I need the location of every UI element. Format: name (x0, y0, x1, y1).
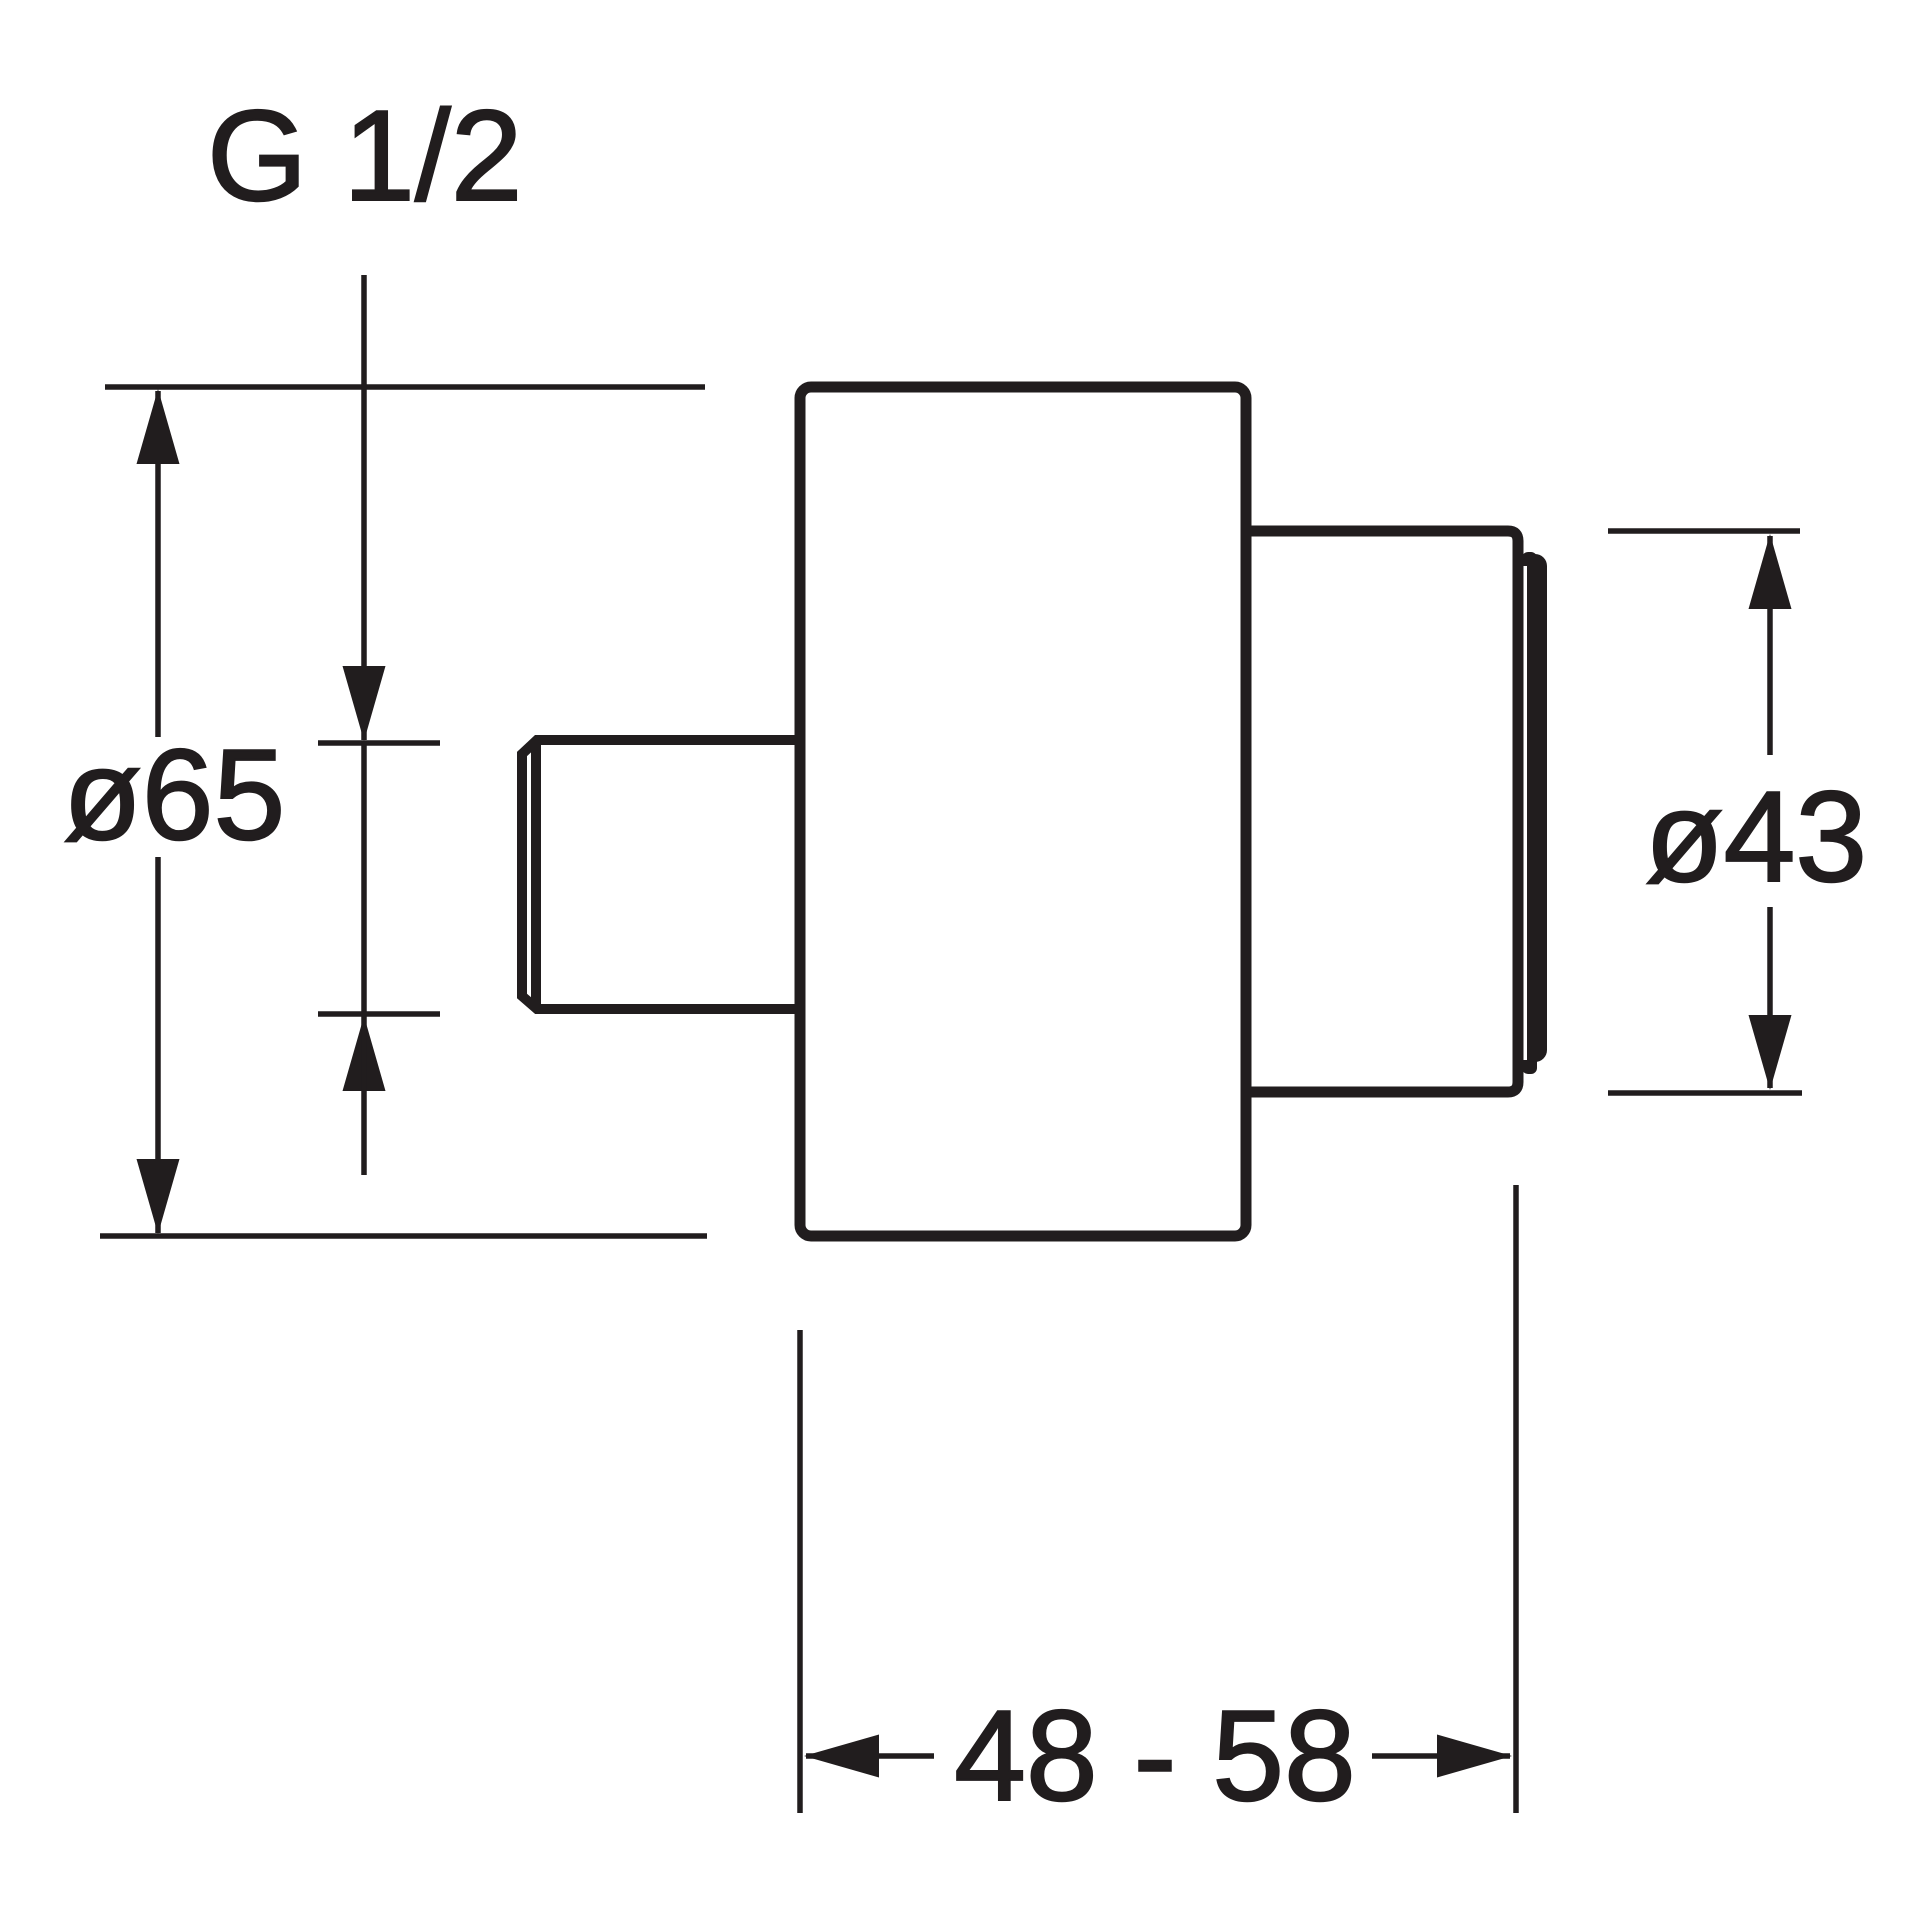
dim ø43 bottom extension line (1608, 1090, 1802, 1096)
right cylinder (escutcheon sleeve) (1246, 531, 1518, 1092)
G 1/2 leader / stub dimension line upper part with down arrow (361, 275, 367, 740)
main body (rounded rectangle) (800, 387, 1246, 1236)
dim 48-58 dimension line left segment with left arrow (806, 1753, 934, 1759)
dim ø65 dimension line upper segment with up arrow (155, 391, 161, 737)
svg-text:ø65: ø65 (63, 723, 285, 867)
svg-text:ø43: ø43 (1645, 765, 1867, 909)
end cap flange (filled) (1522, 552, 1537, 1074)
dim 48-58 right extension line (1513, 1185, 1519, 1813)
dim ø43 dimension line upper segment with up arrow (1767, 536, 1773, 755)
end cap body (filled) (1522, 554, 1547, 1062)
white slit between sleeve and cap (1524, 566, 1528, 1060)
dim ø43 dimension line lower segment with down arrow (1767, 907, 1773, 1088)
dim ø65 dimension line lower segment with down arrow (155, 857, 161, 1233)
tick at stub bottom edge (318, 1011, 440, 1017)
connecting line between ticks (361, 743, 367, 1014)
thread relief line on stub (531, 740, 541, 1009)
up arrow below stub with tail (343, 1016, 386, 1091)
redraw sleeve right edge over slit (1513, 541, 1524, 1082)
tick at stub top edge (318, 740, 440, 746)
svg-text:48 - 58: 48 - 58 (954, 1684, 1356, 1828)
dim ø65 top extension line (105, 384, 705, 390)
thread stub (G 1/2 spout connector), chamfered left end (522, 740, 800, 1009)
svg-text:G 1/2: G 1/2 (207, 84, 523, 228)
dim ø65 bottom extension line (100, 1233, 707, 1239)
dim 48-58 dimension line right segment with right arrow (1372, 1753, 1510, 1759)
dim ø43 top extension line (1608, 528, 1800, 534)
dim 48-58 left extension line (797, 1330, 803, 1813)
